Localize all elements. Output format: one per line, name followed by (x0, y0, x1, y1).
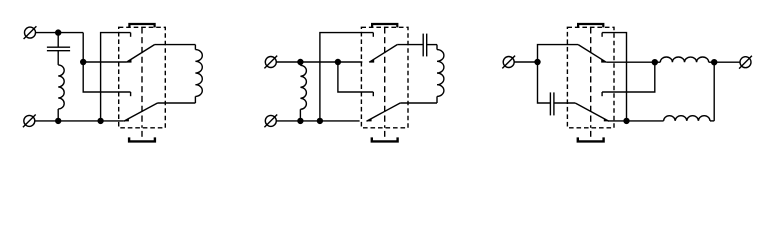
terminal J4 (input B, bottom) (264, 115, 277, 128)
fixed contact tick (upper) S3 (601, 33, 603, 37)
actuator bracket bottom S3 (578, 137, 604, 141)
junction: J6 node (712, 60, 717, 65)
junction: riser to bottom rail circuit 2 (317, 118, 322, 123)
switch lever (lower pole) S1 (124, 103, 158, 121)
junction: riser to bottom rail circuit 3 (624, 118, 629, 123)
capacitor C1 (57, 33, 59, 48)
wire: upper top-contact feed riser (101, 33, 131, 121)
wire: upper contact to output node (606, 61, 655, 63)
junction: L3 top tap (298, 60, 303, 65)
junction: output node circuit 3 (652, 60, 657, 65)
wire: bottom rail circuit 3 (608, 120, 663, 122)
fixed contact tick (lower) S1 (130, 92, 132, 96)
wire: pole node to upper switch (83, 61, 126, 63)
wire: J3 to upper switch pole (276, 61, 362, 63)
inductor L2 (output coil) (194, 45, 196, 50)
terminal J2 (input A, bottom) (23, 115, 36, 128)
inductor L1 (shunt) (57, 51, 59, 65)
mechanical linkage line S1 (141, 27, 143, 128)
wire: pole node down to lower contact feed (83, 62, 130, 92)
inductor L4 (output coil) (436, 45, 438, 50)
switch lever (lower pole) S2 (367, 103, 401, 121)
switch lever (lower pole) S3 (575, 103, 609, 121)
terminal J3 (input B, top) (264, 56, 277, 69)
actuator bracket top S3 (578, 24, 603, 27)
junction: riser to bottom rail circuit 1 (98, 118, 103, 123)
terminal J6 (output) (739, 56, 752, 69)
actuator bracket top S2 (372, 24, 397, 27)
inductor L5 (series, top) (655, 61, 661, 63)
wire: lower contact feed circuit 2 (338, 62, 373, 92)
wire: output node to J6 (714, 61, 740, 63)
switch lever (upper pole) S2 (369, 45, 397, 63)
wire: output coil bottom to lower common circuit 2 (400, 102, 437, 104)
wire: C2 to output coil (427, 44, 437, 46)
switch enclosure S3 (dashed) (567, 27, 614, 128)
junction: L1 to bottom rail (56, 118, 61, 123)
wire: bottom rail circuit 1 (35, 120, 124, 122)
wire: J6 node riser down (713, 62, 715, 121)
wire: upper common to capacitor C2 (397, 44, 423, 46)
junction: pole node circuit 1 (81, 60, 86, 65)
wire: lower contact line to output riser (602, 62, 655, 92)
actuator bracket bottom S1 (129, 137, 155, 141)
actuator bracket bottom S2 (372, 137, 398, 141)
capacitor C2 (series) (422, 34, 424, 57)
wire: riser down to capacitor C3 (538, 62, 551, 103)
wire: C3 to lower common (554, 102, 575, 104)
capacitor C3 (series) (549, 92, 551, 115)
wire: bottom rail circuit 2 (276, 120, 359, 122)
inductor L3 (shunt across input) (299, 62, 301, 65)
fixed contact tick (lower) S3 (601, 92, 603, 96)
switch enclosure S2 (dashed) (361, 27, 408, 128)
switch enclosure S1 (dashed) (119, 27, 166, 128)
wire: J1 to corner (36, 32, 84, 34)
fixed contact tick (upper) S1 (130, 33, 132, 37)
terminal J1 (input A, top) (24, 26, 37, 39)
actuator bracket top S1 (129, 24, 154, 27)
junction: C1 tap on top wire (56, 30, 61, 35)
wire: J5 to riser (514, 61, 537, 63)
switch lever (upper pole) S3 (578, 45, 606, 63)
wire: output coil bottom to lower common (158, 102, 196, 104)
fixed contact tick (lower) S2 (372, 92, 374, 96)
wire: upper common to output coil (155, 44, 196, 46)
fixed contact tick (upper) S2 (372, 33, 374, 37)
inductor L6 (series, bottom) (664, 116, 710, 121)
wire: riser up to upper pole (538, 45, 579, 62)
terminal J5 (input C) (502, 56, 515, 69)
junction: lower contact feed tap (335, 60, 340, 65)
wire: upper top-contact feed riser circuit 2 (320, 33, 373, 121)
wire: corner down to pole node (82, 33, 84, 62)
junction: L3 bottom to rail (298, 118, 303, 123)
mechanical linkage line S3 (590, 27, 592, 128)
switch lever (upper pole) S1 (127, 45, 155, 63)
mechanical linkage line S2 (384, 27, 386, 128)
wire: upper top-contact feed + riser to bottom rail (602, 33, 626, 121)
junction: input node circuit 3 (535, 60, 540, 65)
